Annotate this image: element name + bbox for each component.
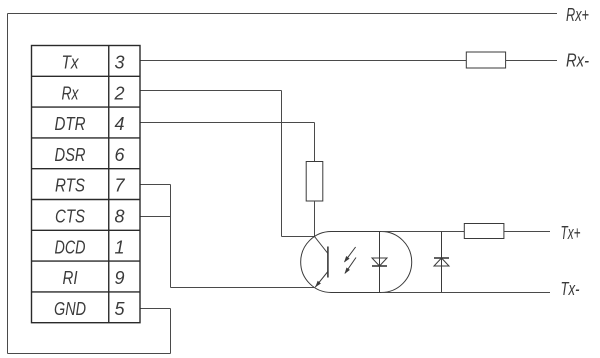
svg-text:Tx+: Tx+ <box>561 223 581 243</box>
wire to emitter <box>171 287 315 289</box>
optocoupler U1 body (stadium outline) <box>301 232 412 293</box>
LED D1 triangle (anode top) <box>372 258 387 266</box>
light arrow 2 <box>345 258 357 275</box>
svg-text:Tx-: Tx- <box>561 279 580 299</box>
wire pin 4 (DTR) horizontal <box>140 122 315 124</box>
LED D1 vertical lead <box>379 232 381 293</box>
wire resistor R1 to Rx- label <box>506 60 557 62</box>
wire Rx+ top horizontal <box>8 13 558 15</box>
wire resistor R3 to Tx+ label <box>504 231 550 233</box>
diode VD1 cathode bar <box>434 257 449 259</box>
wire bottom horizontal <box>8 353 171 355</box>
wire Tx- line <box>381 292 550 294</box>
wire GND pin 5 to riser <box>140 308 171 310</box>
svg-text:3: 3 <box>114 53 124 73</box>
svg-text:8: 8 <box>114 207 124 227</box>
wire pin 8 (CTS) horizontal <box>140 216 171 218</box>
svg-text:2: 2 <box>113 83 124 103</box>
wire pin 2 to collector node <box>282 236 315 238</box>
svg-text:Rx-: Rx- <box>566 51 589 71</box>
svg-text:Tx: Tx <box>62 53 80 73</box>
diode VD1 vertical lead <box>441 232 443 293</box>
wire pin 7 (RTS) horizontal <box>140 184 171 186</box>
DB9 connector table J1 <box>32 46 141 323</box>
wire GND riser <box>170 309 172 354</box>
svg-text:4: 4 <box>114 114 124 134</box>
wire resistor R2 to collector node <box>314 201 316 237</box>
resistor R2 vertical <box>306 162 323 202</box>
resistor R1 (Rx- line) <box>466 52 505 68</box>
svg-text:DSR: DSR <box>55 145 86 165</box>
pin labels <box>54 53 125 319</box>
net labels <box>561 5 590 299</box>
svg-text:7: 7 <box>114 176 125 196</box>
phototransistor Q1 collector <box>315 237 328 254</box>
phototransistor Q1 emitter with arrow <box>315 272 328 288</box>
svg-text:DTR: DTR <box>55 114 86 134</box>
svg-text:Rx: Rx <box>62 83 80 103</box>
svg-text:GND: GND <box>54 299 86 319</box>
wire RTS/CTS vertical <box>170 185 172 288</box>
diode VD1 triangle (cathode up) <box>434 258 449 266</box>
svg-text:RTS: RTS <box>55 176 85 196</box>
svg-text:5: 5 <box>114 299 125 319</box>
LED D1 cathode bar <box>372 265 387 267</box>
svg-text:6: 6 <box>114 145 125 165</box>
wire LED top to Tx+ resistor <box>381 231 464 233</box>
light arrow 1 <box>344 247 356 263</box>
resistor R3 (Tx+ line) <box>464 224 504 239</box>
phototransistor Q1 base bar <box>327 247 329 278</box>
svg-text:Rx+: Rx+ <box>566 5 589 25</box>
svg-text:1: 1 <box>114 237 124 257</box>
svg-text:DCD: DCD <box>55 237 86 257</box>
wire pin 3 (Tx) to resistor <box>140 60 466 62</box>
svg-text:9: 9 <box>114 268 124 288</box>
wire pin 4 vertical to resistor R2 <box>314 123 316 163</box>
wire pin 2 (Rx) horizontal <box>140 90 282 92</box>
svg-text:RI: RI <box>63 268 78 288</box>
wire left vertical rail <box>7 14 9 354</box>
wire pin 2 vertical drop <box>281 91 283 237</box>
svg-text:CTS: CTS <box>55 207 85 227</box>
